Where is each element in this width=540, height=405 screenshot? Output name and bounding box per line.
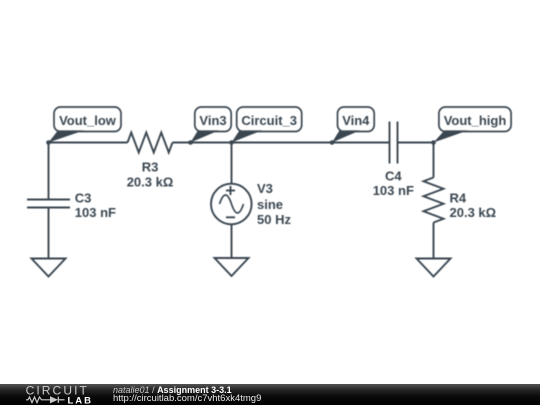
node label Vin3	[191, 107, 232, 143]
wire: C3 bottom to ground	[48, 208, 50, 259]
node dot Vout_low	[46, 140, 51, 145]
svg-text:R4: R4	[450, 191, 467, 206]
wire: Vout_low node down to C3	[48, 143, 50, 200]
svg-text:LAB: LAB	[68, 395, 94, 405]
svg-text:103 nF: 103 nF	[373, 183, 414, 198]
wire: C4 right plate to Vout_high node	[398, 142, 434, 144]
ground (left)	[32, 259, 66, 277]
capacitor C4	[390, 122, 398, 164]
svg-text:R3: R3	[142, 160, 159, 175]
svg-text:20.3 kΩ: 20.3 kΩ	[127, 174, 174, 189]
ground (right)	[417, 259, 451, 277]
node label Vout_low	[49, 107, 122, 143]
logo diode bar and wire	[57, 397, 59, 403]
V3 plus terminal mark	[226, 190, 235, 192]
voltage source V3	[211, 184, 252, 225]
svg-text:C4: C4	[385, 168, 402, 183]
label R3 value	[75, 160, 496, 228]
svg-text:Vin4: Vin4	[342, 113, 370, 128]
svg-text:V3: V3	[257, 181, 273, 196]
footer credit line	[113, 386, 232, 396]
node label Vout_high	[434, 107, 512, 143]
node dot Vin3	[188, 140, 193, 145]
node dot Vout_high	[431, 140, 436, 145]
svg-text:Vin3: Vin3	[199, 113, 226, 128]
wire: R3 right to C4 left plate	[173, 142, 390, 144]
node label Vin4	[332, 107, 374, 143]
svg-text:C3: C3	[75, 191, 92, 206]
svg-text:50 Hz: 50 Hz	[257, 212, 291, 227]
svg-text:103 nF: 103 nF	[75, 205, 116, 220]
resistor R4	[424, 178, 444, 223]
logo resistor squiggle	[26, 397, 50, 403]
footer url line	[113, 394, 261, 404]
ground (middle)	[215, 258, 249, 276]
wire: Vout_low node to R3 left	[49, 142, 128, 144]
CircuitLab logo	[0, 384, 110, 405]
wire: Vout_high node down to R4	[433, 143, 435, 178]
svg-text:Vout_high: Vout_high	[444, 113, 507, 128]
footer bar	[0, 384, 540, 405]
logo diode triangle	[50, 396, 58, 403]
node dot Vin4	[330, 140, 335, 145]
V3 sine waveform	[220, 195, 244, 213]
capacitor C3	[27, 200, 70, 208]
resistor R3	[128, 133, 173, 153]
svg-text:sine: sine	[257, 197, 283, 212]
svg-text:Vout_low: Vout_low	[59, 113, 117, 128]
svg-text:Circuit_3: Circuit_3	[241, 113, 297, 128]
node label Circuit_3	[232, 107, 302, 143]
svg-text:20.3 kΩ: 20.3 kΩ	[450, 205, 497, 220]
wire: R4 bottom to ground	[433, 223, 435, 259]
wire: Circuit_3 node down to V3	[231, 143, 233, 184]
wire: V3 bottom to ground	[231, 224, 233, 258]
node dot Circuit_3	[229, 140, 234, 145]
V3 minus terminal mark	[226, 216, 235, 218]
